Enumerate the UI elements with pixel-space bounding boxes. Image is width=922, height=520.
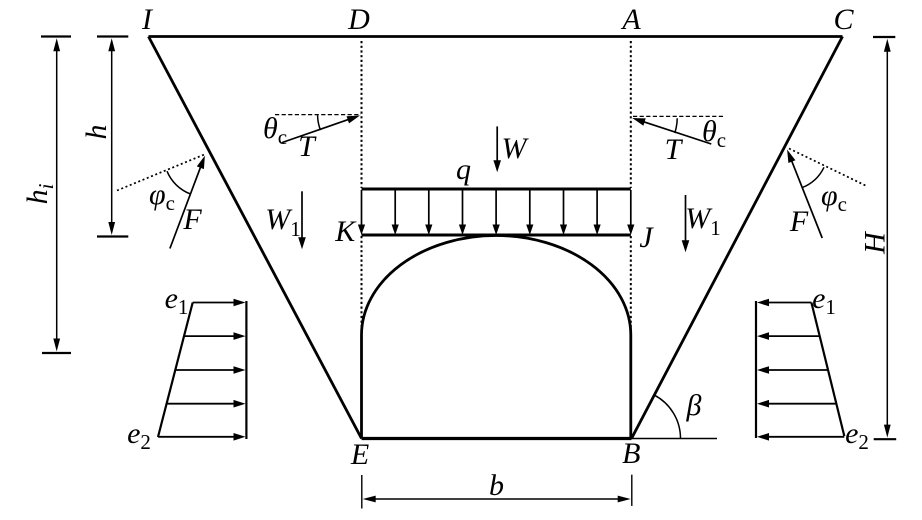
svg-text:F: F bbox=[182, 203, 202, 236]
h bottom tick bbox=[97, 235, 128, 237]
H top tick bbox=[873, 36, 895, 38]
right pressure vertical edge bbox=[755, 301, 757, 438]
left pressure slant edge bbox=[158, 303, 193, 438]
svg-text:e1: e1 bbox=[165, 282, 189, 319]
svg-text:W1: W1 bbox=[265, 203, 301, 241]
q load bottom line K-J bbox=[362, 234, 631, 237]
left slope line I-E bbox=[149, 37, 362, 439]
left T arrow bbox=[282, 119, 349, 142]
svg-text:E: E bbox=[350, 438, 369, 471]
dotted vertical below A (upper) bbox=[630, 41, 632, 188]
top ground line I-C bbox=[149, 35, 843, 38]
svg-text:T: T bbox=[298, 130, 317, 163]
svg-text:H: H bbox=[858, 230, 891, 255]
H dimension line bbox=[886, 49, 888, 428]
left pressure arrow 1 bbox=[193, 302, 236, 304]
left theta_c angle arc bbox=[318, 115, 321, 130]
dotted vertical below A (lower) bbox=[630, 236, 632, 333]
q load top line K-J band bbox=[362, 188, 631, 191]
left force arrow W1 bbox=[301, 191, 303, 239]
tunnel right wall bbox=[629, 335, 632, 439]
right dashed horizontal reference bbox=[633, 115, 725, 117]
right pressure arrow 2 bbox=[767, 335, 820, 337]
left pressure arrow 4 bbox=[167, 403, 236, 405]
dotted vertical below D (upper) bbox=[361, 41, 363, 188]
left phi_c angle arc bbox=[167, 171, 191, 194]
svg-text:φc: φc bbox=[821, 179, 847, 216]
svg-text:I: I bbox=[141, 3, 154, 36]
right F arrow bbox=[791, 160, 822, 238]
svg-text:K: K bbox=[334, 215, 357, 248]
svg-text:e2: e2 bbox=[845, 417, 869, 454]
right phi_c angle arc bbox=[802, 167, 824, 187]
right T arrow bbox=[643, 121, 712, 144]
svg-text:F: F bbox=[789, 205, 809, 238]
force arrow W bbox=[496, 126, 498, 162]
q load arrow 7 bbox=[563, 190, 565, 227]
h top tick bbox=[97, 35, 128, 37]
left pressure arrow 5 bbox=[158, 436, 235, 438]
q load arrow 9 bbox=[630, 190, 632, 227]
h dimension line bbox=[111, 48, 113, 225]
left pressure arrow 3 bbox=[175, 369, 235, 371]
svg-text:hi: hi bbox=[21, 183, 58, 204]
right force arrow W1 bbox=[685, 195, 687, 242]
b right extension line bbox=[631, 475, 633, 506]
right pressure arrow 3 bbox=[767, 369, 828, 371]
dotted vertical below D (lower) bbox=[361, 236, 363, 333]
H bottom tick bbox=[874, 438, 897, 440]
b dimension line bbox=[372, 498, 621, 500]
svg-text:φc: φc bbox=[149, 178, 175, 215]
h_i top tick bbox=[41, 35, 71, 37]
left F arrow bbox=[170, 166, 201, 249]
svg-text:D: D bbox=[347, 3, 370, 36]
svg-text:C: C bbox=[833, 3, 854, 36]
svg-text:T: T bbox=[665, 133, 684, 166]
right pressure arrow 1 bbox=[767, 302, 811, 304]
left dashed horizontal reference bbox=[275, 114, 361, 116]
svg-text:e1: e1 bbox=[812, 282, 836, 319]
right dotted reference line bbox=[789, 149, 867, 187]
left dotted reference line bbox=[117, 154, 206, 191]
h_i dimension line bbox=[56, 48, 58, 341]
right pressure arrow 4 bbox=[767, 403, 836, 405]
q load arrow 2 bbox=[394, 190, 396, 227]
tunnel left wall bbox=[360, 335, 363, 439]
left pressure arrow 2 bbox=[184, 335, 236, 337]
svg-text:b: b bbox=[489, 469, 504, 502]
svg-text:θc: θc bbox=[702, 115, 726, 152]
right pressure arrow 5 bbox=[767, 436, 844, 438]
right pressure slant edge bbox=[811, 303, 844, 437]
thin floor extension right of B bbox=[632, 438, 718, 440]
svg-text:e2: e2 bbox=[127, 417, 151, 454]
svg-text:W: W bbox=[502, 132, 530, 165]
b left extension line bbox=[361, 475, 363, 509]
beta angle arc bbox=[654, 395, 680, 438]
svg-text:W1: W1 bbox=[685, 202, 721, 240]
tunnel floor line E-B bbox=[362, 437, 632, 440]
left pressure vertical edge bbox=[245, 301, 247, 439]
q load arrow 3 bbox=[428, 190, 430, 227]
q load arrow 5 bbox=[495, 190, 497, 227]
svg-text:θc: θc bbox=[263, 112, 287, 149]
q load arrow 4 bbox=[462, 190, 464, 227]
tunnel arch (semi-ellipse) bbox=[362, 236, 631, 335]
svg-text:A: A bbox=[620, 3, 641, 36]
svg-text:q: q bbox=[456, 153, 471, 186]
right theta_c angle arc bbox=[675, 118, 678, 133]
q load arrow 8 bbox=[596, 190, 598, 227]
q load arrow 6 bbox=[529, 190, 531, 227]
right slope line C-B bbox=[632, 37, 843, 439]
svg-text:β: β bbox=[686, 389, 702, 422]
svg-text:B: B bbox=[622, 437, 640, 470]
q load arrow 1 bbox=[361, 190, 363, 227]
h_i bottom tick bbox=[42, 352, 71, 354]
svg-text:J: J bbox=[639, 221, 654, 254]
svg-text:h: h bbox=[80, 125, 113, 140]
